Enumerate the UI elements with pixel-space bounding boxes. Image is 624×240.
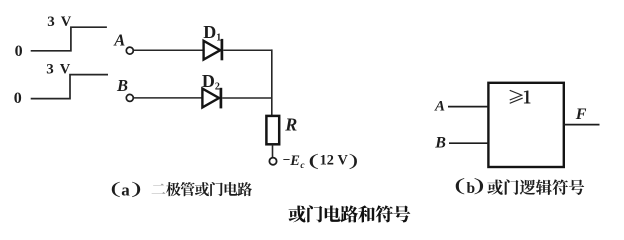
svg-text:): ) [474, 175, 485, 195]
node A input terminal [126, 47, 133, 54]
diode D1 [204, 39, 222, 60]
svg-text:A: A [434, 99, 445, 115]
svg-text:0: 0 [14, 90, 22, 107]
svg-text:R: R [284, 114, 297, 134]
caption (b) OR gate logic symbol [454, 175, 584, 197]
supply label -Ec (12 V) [283, 150, 359, 171]
figure title: OR gate circuit and symbol [289, 205, 411, 222]
output bus wire (vertical) [271, 49, 273, 116]
gate input A wire [448, 106, 488, 108]
OR gate box U1 [488, 83, 563, 167]
svg-text:(: ( [308, 150, 319, 169]
svg-text:): ) [349, 151, 359, 170]
svg-text:B: B [116, 76, 128, 95]
resistor R [266, 116, 279, 144]
svg-text:3: 3 [47, 14, 55, 30]
node B input terminal [126, 94, 133, 101]
svg-text:E: E [289, 153, 300, 169]
svg-text:3: 3 [46, 62, 54, 78]
svg-text:F: F [575, 106, 587, 123]
input waveform 2: step wire [31, 75, 108, 99]
wire A terminal to D1 anode [134, 49, 204, 51]
svg-text:A: A [113, 30, 125, 49]
svg-text:a: a [121, 181, 130, 200]
wire resistor to output terminal [272, 144, 274, 157]
svg-text:(: ( [454, 175, 465, 195]
gate output wire [563, 124, 600, 126]
caption (a) diode OR circuit [110, 180, 252, 200]
output terminal circle [269, 158, 276, 165]
svg-text:(: ( [110, 180, 120, 198]
wire D1 cathode to output bus [223, 49, 272, 51]
diode D2 [202, 88, 221, 109]
svg-text:0: 0 [15, 43, 23, 60]
wire D2 cathode to output bus [222, 97, 272, 99]
input waveform 1: step wire [31, 27, 107, 51]
svg-text:12 V: 12 V [320, 153, 349, 169]
svg-text:−: − [283, 152, 291, 167]
OR gate >=1 symbol [510, 90, 531, 104]
svg-text:): ) [131, 180, 141, 198]
gate input B wire [449, 142, 488, 144]
wire B terminal to D2 anode [134, 97, 203, 99]
svg-text:B: B [434, 135, 446, 152]
